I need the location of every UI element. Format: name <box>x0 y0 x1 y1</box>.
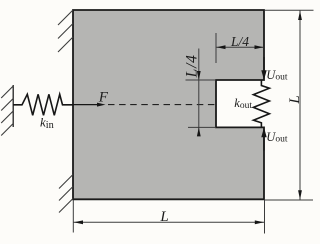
force F line <box>74 104 100 106</box>
top L/4 arrow right <box>255 45 264 49</box>
spring k_out <box>253 80 269 127</box>
vertical L/4 dimension line <box>198 49 200 137</box>
right L top extension line <box>265 9 314 11</box>
vertical L/4 arrow down <box>197 71 201 80</box>
top L/4 extension tick <box>215 33 217 63</box>
notch top extension tick <box>186 79 217 81</box>
svg-text:F: F <box>98 89 109 105</box>
top L/4 dimension line <box>217 46 264 48</box>
bottom L dimension line <box>73 221 264 223</box>
bottom L right extension line <box>264 200 266 234</box>
hatch bottom-left corner <box>59 175 73 213</box>
vertical L/4 arrow up <box>197 127 201 136</box>
right L bottom extension line <box>265 199 313 201</box>
svg-text:L/4: L/4 <box>184 54 201 78</box>
svg-text:Uout: Uout <box>266 130 288 145</box>
plate (square design domain with right-edge notch) <box>73 10 264 199</box>
right L arrow down <box>298 190 302 199</box>
svg-text:L/4: L/4 <box>230 34 249 49</box>
notch bottom extension tick <box>188 126 216 128</box>
top L/4 arrow left <box>217 45 226 49</box>
spring k_in <box>13 94 73 115</box>
force F arrowhead <box>97 103 106 107</box>
right L arrow up <box>298 11 302 20</box>
svg-text:kin: kin <box>40 114 54 131</box>
svg-text:Uout: Uout <box>266 68 288 83</box>
right L dimension line <box>299 10 301 200</box>
dashed centerline <box>108 104 215 106</box>
bottom L left extension line <box>72 200 74 233</box>
bottom L arrow right <box>255 220 264 224</box>
U_out top arrow <box>261 57 266 80</box>
svg-text:L: L <box>159 209 168 225</box>
svg-text:L: L <box>287 95 303 104</box>
wall hatch <box>1 86 13 136</box>
U_out bottom arrow <box>261 127 266 150</box>
wall (left spring anchor) <box>12 85 14 127</box>
hatch top-left corner <box>58 10 73 52</box>
svg-text:kout: kout <box>234 96 252 111</box>
bottom L arrow left <box>74 220 83 224</box>
